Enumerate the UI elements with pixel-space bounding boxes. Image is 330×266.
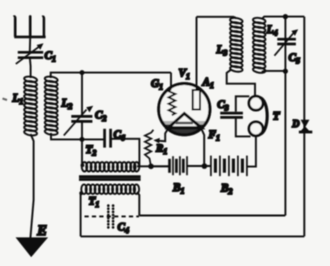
wire T1 right down: [137, 192, 139, 216]
svg-text:B1: B1: [172, 182, 184, 196]
svg-text:C1: C1: [45, 50, 56, 64]
svg-text:D: D: [291, 119, 299, 130]
svg-text:C2: C2: [95, 110, 106, 124]
filament shading: [161, 121, 207, 136]
wire B1 to B2: [187, 165, 211, 167]
anode A1: [193, 77, 214, 110]
node C2 bottom junction: [80, 137, 85, 142]
svg-text:T: T: [273, 111, 281, 123]
svg-text:R1: R1: [155, 142, 167, 156]
resistor R1: [145, 130, 167, 166]
svg-text:E: E: [36, 223, 47, 239]
svg-text:C3: C3: [217, 99, 228, 113]
ink speck: [3, 99, 8, 101]
wire L4 bottom to C5 junction: [262, 71, 286, 72]
tube circle overdraw: [159, 84, 210, 135]
wire junction to T2 winding: [81, 139, 83, 166]
svg-text:L3: L3: [216, 44, 228, 58]
dashed wire: [85, 215, 140, 217]
coil L3: [216, 17, 243, 73]
wire inner bottom: [139, 215, 285, 217]
top wire anode to L3: [197, 16, 235, 18]
wire L3 bottom to phones top: [227, 69, 255, 96]
svg-text:T2: T2: [86, 144, 97, 158]
capacitor C1: [16, 43, 56, 64]
ground E: [17, 223, 47, 256]
grid wire L2 top to tube: [51, 73, 171, 78]
diode D: [291, 119, 312, 132]
svg-text:L2: L2: [61, 98, 73, 112]
wire L4 top to rail: [262, 17, 305, 19]
coil L1: [12, 76, 38, 137]
svg-text:L4: L4: [266, 24, 278, 38]
node filament junction: [202, 163, 208, 169]
svg-text:V1: V1: [179, 68, 190, 82]
grid G1: [151, 73, 175, 116]
wire L1 to ground: [30, 134, 33, 238]
capacitor C5: [274, 17, 300, 216]
transformer core: [79, 177, 141, 180]
svg-text:B2: B2: [220, 183, 232, 197]
node C5 bottom: [283, 69, 288, 74]
coil L4: [253, 17, 278, 74]
tube V1 envelope: [159, 68, 210, 135]
battery B2: [211, 156, 247, 196]
wire T2 right to junction J1: [137, 165, 170, 167]
svg-text:F1: F1: [208, 129, 220, 143]
right rail: [303, 17, 305, 237]
T2 winding left terminal: [81, 163, 85, 167]
rheostat arrow from filament: [159, 128, 168, 141]
battery B1: [151, 156, 187, 195]
transformer T1 winding: [81, 184, 139, 209]
T1 winding left terminal: [79, 191, 83, 195]
node J1: [148, 164, 154, 170]
wire C2 top lead: [81, 73, 83, 117]
svg-text:L1: L1: [12, 93, 24, 107]
wire C1 to L1: [29, 58, 32, 78]
transformer T2 winding: [82, 144, 140, 172]
coil L2: [44, 76, 72, 136]
filament lead right F1: [202, 129, 220, 166]
phones T: [249, 96, 281, 136]
svg-text:A1: A1: [202, 77, 214, 91]
anode lead: [196, 17, 198, 90]
wire bottom long: [81, 235, 305, 237]
svg-text:C6: C6: [114, 129, 125, 143]
svg-text:T1: T1: [89, 196, 100, 210]
antenna: [14, 16, 46, 37]
capacitor C6: [105, 129, 125, 148]
node C5 top: [283, 14, 288, 19]
wire C6 right to junction: [111, 139, 140, 167]
capacitor C4 (dotted): [108, 206, 129, 235]
wire T1 left down: [80, 192, 82, 236]
svg-text:C4: C4: [118, 222, 129, 236]
wire C2 bottom lead: [81, 121, 83, 139]
filament: [168, 114, 201, 128]
svg-text:C5: C5: [289, 52, 300, 66]
svg-text:G1: G1: [151, 78, 163, 92]
wire L2 bottom to C6: [51, 133, 105, 139]
node C2 top: [80, 70, 85, 75]
wire antenna to C1: [29, 37, 31, 52]
capacitor C3: [217, 96, 250, 136]
capacitor C2: [64, 106, 107, 136]
wire B2 right to phones: [247, 136, 256, 167]
